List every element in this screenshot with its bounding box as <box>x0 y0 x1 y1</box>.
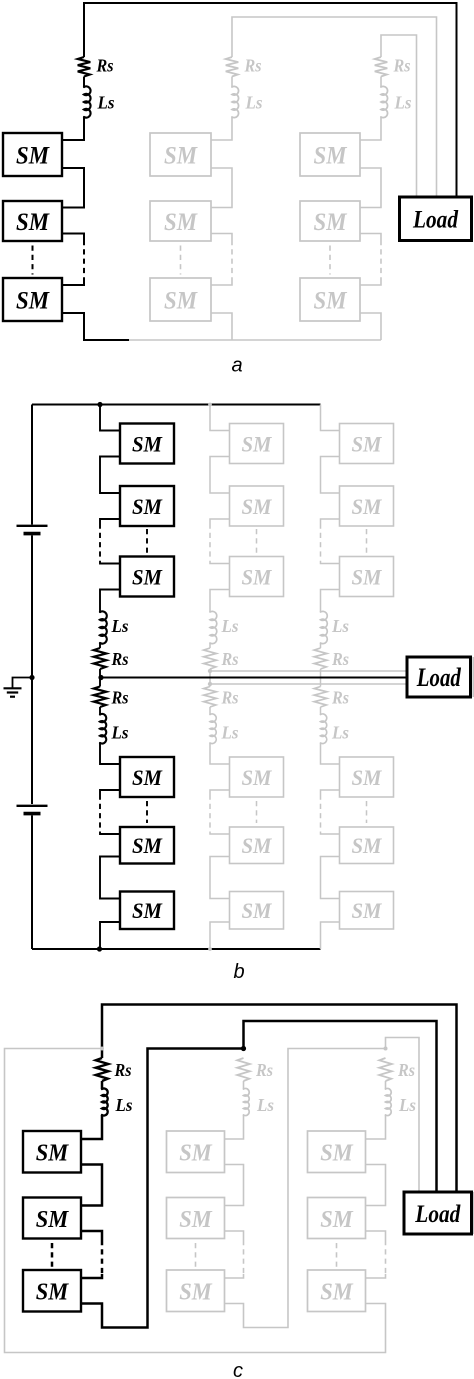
svg-text:SM: SM <box>179 1140 213 1167</box>
submodule SM1 figC branch1 <box>23 1131 81 1173</box>
wire figB arm1 SM5-SM6 <box>100 857 120 899</box>
submodule SM2 figB arm2 upper <box>230 486 284 526</box>
resistor Rs figB arm1 upper <box>94 648 107 669</box>
wire figC branch2 SM3 top pin <box>225 1274 244 1278</box>
node figB arm1 bottom rail junction <box>97 946 102 951</box>
dashed wire figB arm1 SM4-SM5 (left) <box>99 795 101 832</box>
resistor Rs figB arm3 lower <box>314 687 327 708</box>
wire figB arm1 SM3 top pin <box>100 561 120 564</box>
svg-text:SM: SM <box>320 1140 354 1167</box>
wire figC branch1 SM2 bottom pin <box>81 1231 102 1240</box>
wire figB arm2 SM2 bottom pin <box>210 519 230 524</box>
svg-text:SM: SM <box>314 143 348 170</box>
svg-text:Ls: Ls <box>221 616 239 636</box>
battery V2 (lower DC source) <box>17 806 48 814</box>
wire figC branch2 SM2 bottom pin <box>225 1231 244 1240</box>
load block figB <box>407 657 471 697</box>
wire figC branch1 Ls to SM1 pin <box>81 1115 102 1139</box>
load block figA <box>400 197 472 241</box>
wire figA branch2 SM2 bottom pin <box>211 234 232 241</box>
svg-text:Rs: Rs <box>111 649 129 669</box>
dashed wire figA branch2 SM2-SM3 (right) <box>231 240 233 282</box>
svg-text:SM: SM <box>314 209 348 236</box>
wire figA bottom rail (shared, gray) <box>129 339 381 341</box>
node figC branch1 bottom / branch2 top <box>241 1046 246 1051</box>
wire figB DC link middle segment <box>31 535 33 677</box>
submodule SM4 figB arm2 lower <box>230 757 284 797</box>
wire figC branch1 SM3 top pin <box>81 1274 102 1278</box>
wire figC branch2 Ls to SM1 pin <box>225 1115 244 1139</box>
submodule SM6 figB arm1 lower <box>120 892 174 930</box>
node figB arm1 top rail junction <box>97 402 102 407</box>
inductor Ls figA branch2 <box>232 86 239 117</box>
wire figB arm3 SM3 top pin <box>321 561 340 564</box>
wire figB arm3 Rs-Ls lower <box>320 707 322 715</box>
submodule SM2 figB arm1 upper <box>120 486 174 526</box>
svg-text:Rs: Rs <box>96 56 114 76</box>
wire figB arm2 SM6 to bottom rail <box>210 922 230 949</box>
wire figC branch3 Ls to SM1 pin <box>366 1115 386 1139</box>
inductor Ls figB arm2 lower <box>210 714 216 744</box>
wire figB arm2 SM3 top pin <box>210 561 230 564</box>
svg-text:SM: SM <box>242 431 273 456</box>
submodule SM1 figC branch2 <box>167 1131 225 1173</box>
submodule SM2 figC branch2 <box>167 1198 225 1239</box>
node figC branch1 top / branch3 return <box>100 1047 104 1051</box>
wire figC branch3 SM1-SM2 <box>366 1165 386 1206</box>
svg-text:Rs: Rs <box>244 56 262 76</box>
wire figB arm2 midpoint segment <box>209 669 211 687</box>
dashed wire figB arm2 SM4-SM5 (left) <box>209 795 211 832</box>
dashed wire figA branch1 SM2-SM3 (center) <box>32 246 34 275</box>
svg-text:Ls: Ls <box>398 1095 416 1115</box>
inductor Ls figC branch3 <box>386 1088 392 1115</box>
submodule SM3 figB arm2 upper <box>230 557 284 597</box>
resistor Rs figC branch3 <box>379 1058 392 1081</box>
resistor Rs figA branch1 <box>78 57 91 77</box>
wire figB arm3 SM5-SM6 <box>321 857 340 899</box>
submodule SM3 figB arm1 upper <box>120 557 174 597</box>
svg-text:Load: Load <box>412 207 458 234</box>
wire figA branch3 SM3 top pin <box>360 282 381 285</box>
svg-text:SM: SM <box>314 288 348 315</box>
wire figB arm3 SM3 to Ls <box>321 590 340 613</box>
wire figA branch2 Rs-Ls <box>231 77 233 88</box>
svg-text:Ls: Ls <box>115 1095 133 1115</box>
wire figB DC link upper segment <box>31 405 33 525</box>
wire figB ground stub <box>13 678 33 688</box>
wire figB arm3 output to Load <box>210 683 407 685</box>
submodule SM3 figA branch2 <box>150 278 211 321</box>
svg-text:SM: SM <box>242 564 273 589</box>
svg-text:Rs: Rs <box>221 649 239 669</box>
dashed wire figB arm2 SM4-SM5 (center) <box>256 801 258 823</box>
svg-text:SM: SM <box>352 898 383 923</box>
wire figC branch1/2 node to Load <box>244 1021 437 1192</box>
wire figB arm3 SM6 to bottom rail <box>321 922 340 949</box>
resistor Rs figC branch2 <box>237 1058 250 1081</box>
wire figC branch1 SM1-SM2 <box>81 1165 102 1206</box>
submodule SM5 figB arm2 lower <box>230 827 284 864</box>
dashed wire figC branch1 SM2-SM3 (center) <box>51 1243 54 1267</box>
wire figB arm3 SM2 bottom pin <box>321 519 340 524</box>
svg-text:Ls: Ls <box>331 723 349 743</box>
wire figB arm3 Ls-Rs upper <box>320 643 322 648</box>
svg-text:Ls: Ls <box>221 723 239 743</box>
wire figA branch3 SM2 bottom pin <box>360 234 381 241</box>
wire figB arm2 Rs-Ls lower <box>209 707 211 715</box>
submodule SM5 figB arm1 lower <box>120 827 174 864</box>
inductor Ls figB arm1 lower <box>100 714 106 744</box>
inductor Ls figC branch1 <box>102 1088 108 1115</box>
resistor Rs figB arm3 upper <box>314 648 327 669</box>
wire figC branch1 top to Load <box>102 1005 457 1193</box>
load block figC <box>404 1192 472 1234</box>
wire figA branch3 top rail to Load <box>381 35 417 197</box>
wire figB top DC rail <box>32 404 321 406</box>
submodule SM4 figB arm1 lower <box>120 757 174 797</box>
svg-text:b: b <box>233 961 244 983</box>
submodule SM2 figC branch3 <box>308 1198 366 1239</box>
svg-text:SM: SM <box>179 1206 213 1233</box>
load shadow edge figB (gray load outline behind) <box>472 657 474 697</box>
wire figA branch1 SM1-SM2 <box>62 168 84 208</box>
wire figB arm2 SM3 to Ls <box>210 590 230 613</box>
inductor Ls figC branch2 <box>244 1088 250 1115</box>
svg-text:Rs: Rs <box>221 688 239 708</box>
submodule SM1 figC branch3 <box>308 1131 366 1173</box>
svg-text:SM: SM <box>132 833 163 858</box>
wire figB arm1 Ls to SM4 pin <box>100 743 120 764</box>
resistor Rs figC branch1 <box>96 1058 109 1081</box>
dashed wire figB arm3 SM2-SM3 (left) <box>320 524 322 562</box>
svg-text:a: a <box>231 355 242 377</box>
wire figB arm2 Ls to SM4 pin <box>210 743 230 764</box>
submodule SM3 figA branch3 <box>300 278 360 321</box>
svg-text:SM: SM <box>179 1279 213 1306</box>
svg-text:SM: SM <box>242 898 273 923</box>
svg-text:Load: Load <box>416 663 462 692</box>
svg-text:SM: SM <box>16 288 50 315</box>
wire figA branch3 SM3 to bottom rail <box>360 313 381 340</box>
wire figB arm1 SM2 bottom pin <box>100 519 120 524</box>
wire figB arm1 midpoint segment <box>99 669 101 687</box>
resistor Rs figA branch2 <box>226 57 239 77</box>
wire figA branch2 SM3 top pin <box>211 282 232 285</box>
wire figC branch3 Rs-Ls <box>385 1081 387 1089</box>
dashed wire figC branch2 SM2-SM3 (center) <box>195 1243 197 1267</box>
wire figC branch1 bottom riser to branch2 top node <box>102 1049 244 1328</box>
wire figB arm3 midpoint segment <box>320 669 322 687</box>
submodule SM1 figA branch2 <box>150 133 211 176</box>
wire figA branch1 Ls to SM1 pin <box>62 117 84 140</box>
wire figB arm1 output to Load <box>100 677 407 679</box>
dashed wire figC branch1 SM2-SM3 (right) <box>101 1240 104 1274</box>
dashed wire figA branch1 SM2-SM3 (right) <box>83 240 85 282</box>
svg-text:SM: SM <box>164 288 198 315</box>
wire figB arm2 top rail to SM1 pin <box>210 405 230 431</box>
wire figC branch3 SM3 bottom pin <box>366 1304 386 1312</box>
wire figA branch3 Rs-Ls <box>380 77 382 88</box>
dashed wire figC branch2 SM2-SM3 (right) <box>243 1240 245 1274</box>
svg-text:SM: SM <box>132 431 163 456</box>
wire figC branch3 SM3 top pin <box>366 1274 386 1278</box>
svg-text:SM: SM <box>132 494 163 519</box>
wire figB arm1 SM5 top pin <box>100 832 120 835</box>
wire figB arm1 Rs-Ls lower <box>99 707 101 715</box>
wire figA branch2 top rail to Load <box>232 17 437 197</box>
wire figC branch3 top node to Load <box>386 1038 420 1193</box>
svg-text:SM: SM <box>352 494 383 519</box>
inductor Ls figB arm3 upper <box>321 611 328 643</box>
submodule SM2 figA branch3 <box>300 201 360 241</box>
dashed wire figA branch2 SM2-SM3 (center) <box>180 246 182 275</box>
dashed wire figC branch3 SM2-SM3 (center) <box>336 1243 338 1267</box>
resistor Rs figB arm2 lower <box>204 687 217 708</box>
wire figC branch2 SM3 bottom pin <box>225 1304 244 1312</box>
submodule SM1 figB arm2 upper <box>230 424 284 464</box>
dashed wire figB arm3 SM2-SM3 (center) <box>366 529 368 553</box>
resistor Rs figB arm2 upper <box>204 648 217 669</box>
dashed wire figB arm1 SM4-SM5 (center) <box>146 801 148 823</box>
wire figC branch1 Rs-Ls <box>101 1081 104 1089</box>
inductor Ls figB arm2 upper <box>210 611 217 643</box>
svg-text:SM: SM <box>164 209 198 236</box>
dashed wire figB arm3 SM4-SM5 (left) <box>320 795 322 832</box>
wire figB arm1 Ls-Rs upper <box>99 643 101 648</box>
dashed wire figC branch3 SM2-SM3 (right) <box>385 1240 387 1274</box>
node figB arm2 top rail junction <box>208 403 212 407</box>
svg-text:Ls: Ls <box>97 93 115 113</box>
wire figB arm3 SM4 bottom pin <box>321 790 340 795</box>
svg-text:SM: SM <box>352 833 383 858</box>
wire figB arm1 SM4 bottom pin <box>100 790 120 795</box>
wire figA branch3 Ls to SM1 pin <box>360 117 381 140</box>
node figB DC-link midpoint (ground) <box>29 675 34 680</box>
svg-text:Ls: Ls <box>394 93 412 113</box>
wire figB DC link lower segment <box>31 815 33 949</box>
wire figB arm2 SM5-SM6 <box>210 857 230 899</box>
submodule SM4 figB arm3 lower <box>340 757 394 797</box>
resistor Rs figA branch3 <box>375 57 388 77</box>
wire figB arm1 top rail to SM1 pin <box>100 405 120 431</box>
submodule SM3 figA branch1 <box>3 278 62 321</box>
svg-text:SM: SM <box>36 1206 70 1233</box>
svg-text:Load: Load <box>414 1201 460 1228</box>
submodule SM6 figB arm2 lower <box>230 892 284 930</box>
dashed wire figB arm2 SM2-SM3 (center) <box>256 529 258 553</box>
submodule SM2 figC branch1 <box>23 1198 81 1239</box>
resistor Rs figB arm1 lower <box>94 687 107 708</box>
submodule SM2 figA branch2 <box>150 201 211 241</box>
wire figB bottom DC rail <box>32 948 321 950</box>
inductor Ls figB arm1 upper <box>100 611 107 643</box>
dashed wire figB arm1 SM2-SM3 (left) <box>99 524 101 562</box>
svg-text:Rs: Rs <box>393 56 411 76</box>
dashed wire figB arm3 SM4-SM5 (center) <box>366 801 368 823</box>
wire figA branch1 SM3 to bottom rail <box>62 313 129 340</box>
node figC branch2 bottom / branch3 top <box>384 1047 388 1051</box>
submodule SM3 figB arm3 upper <box>340 557 394 597</box>
wire figB arm1 SM6 to bottom rail <box>100 922 120 949</box>
svg-text:SM: SM <box>320 1279 354 1306</box>
svg-text:Ls: Ls <box>111 723 129 743</box>
inductor Ls figB arm3 lower <box>321 714 327 744</box>
wire figA branch1 top rail to Load <box>84 3 457 197</box>
wire figA branch2 SM1-SM2 <box>211 168 232 208</box>
dashed wire figB arm1 SM2-SM3 (center) <box>146 529 148 553</box>
wire figB DC link lower-mid segment <box>31 678 33 805</box>
wire figC branch2 Rs-Ls <box>243 1081 245 1089</box>
svg-text:Rs: Rs <box>397 1060 415 1080</box>
node figB arm2 bottom rail junction <box>208 947 212 951</box>
wire figC branch3 bottom return loop to branch1 node <box>5 1049 386 1353</box>
svg-text:SM: SM <box>352 564 383 589</box>
svg-text:SM: SM <box>132 765 163 790</box>
wire figC branch3 SM2 bottom pin <box>366 1231 386 1240</box>
svg-text:SM: SM <box>242 494 273 519</box>
battery V1 (upper DC source) <box>17 526 48 534</box>
wire figB arm3 top rail to SM1 pin <box>321 405 340 431</box>
svg-text:Ls: Ls <box>111 616 129 636</box>
svg-text:SM: SM <box>132 564 163 589</box>
dashed wire figB arm2 SM2-SM3 (left) <box>209 524 211 562</box>
submodule SM1 figA branch3 <box>300 133 360 176</box>
svg-text:SM: SM <box>36 1140 70 1167</box>
wire figC branch1 SM3 bottom pin <box>81 1304 102 1312</box>
submodule SM2 figB arm3 upper <box>340 486 394 526</box>
node figB arm3 output junction <box>208 682 212 686</box>
svg-text:SM: SM <box>164 143 198 170</box>
wire figB arm3 SM1-SM2 <box>321 457 340 494</box>
svg-text:SM: SM <box>352 765 383 790</box>
submodule SM1 figA branch1 <box>3 133 62 176</box>
wire figB arm2 output to Load <box>210 670 407 672</box>
svg-text:SM: SM <box>132 898 163 923</box>
submodule SM5 figB arm3 lower <box>340 827 394 864</box>
svg-text:SM: SM <box>352 431 383 456</box>
svg-text:SM: SM <box>36 1279 70 1306</box>
ground symbol <box>4 688 22 696</box>
load shadow edge figC (gray load outline behind) <box>472 1192 474 1234</box>
svg-text:c: c <box>233 1360 243 1379</box>
wire figA branch2 Ls to SM1 pin <box>211 117 232 140</box>
wire figB arm3 SM5 top pin <box>321 832 340 835</box>
inductor Ls figA branch1 <box>84 86 91 117</box>
svg-text:SM: SM <box>16 143 50 170</box>
svg-text:Ls: Ls <box>245 93 263 113</box>
svg-text:Ls: Ls <box>256 1095 274 1115</box>
svg-text:Rs: Rs <box>255 1060 273 1080</box>
wire figB arm1 SM3 to Ls <box>100 590 120 613</box>
wire figB arm1 SM1-SM2 <box>100 457 120 494</box>
svg-text:Ls: Ls <box>331 616 349 636</box>
submodule SM1 figB arm3 upper <box>340 424 394 464</box>
wire figA branch3 SM1-SM2 <box>360 168 381 208</box>
wire figA branch1 SM3 top pin <box>62 282 84 285</box>
wire figA branch1 SM2 bottom pin <box>62 234 84 241</box>
submodule SM6 figB arm3 lower <box>340 892 394 930</box>
wire figB arm3 Ls to SM4 pin <box>321 743 340 764</box>
svg-text:Rs: Rs <box>331 688 349 708</box>
wire figC branch2 SM1-SM2 <box>225 1165 244 1206</box>
wire figB arm2 SM4 bottom pin <box>210 790 230 795</box>
wire figB arm2 SM1-SM2 <box>210 457 230 494</box>
submodule SM1 figB arm1 upper <box>120 424 174 464</box>
svg-text:SM: SM <box>320 1206 354 1233</box>
node figB arm2 output junction <box>208 669 212 673</box>
submodule SM3 figC branch2 <box>167 1270 225 1312</box>
inductor Ls figA branch3 <box>381 86 388 117</box>
svg-text:SM: SM <box>242 765 273 790</box>
wire figA branch1 Rs-Ls <box>83 77 85 88</box>
svg-text:Rs: Rs <box>114 1060 132 1080</box>
svg-text:Rs: Rs <box>111 688 129 708</box>
dashed wire figA branch3 SM2-SM3 (center) <box>329 246 331 275</box>
wire figC branch2 bottom to branch3 top node <box>244 1049 386 1328</box>
dashed wire figA branch3 SM2-SM3 (right) <box>380 240 382 282</box>
svg-text:Rs: Rs <box>331 649 349 669</box>
submodule SM2 figA branch1 <box>3 201 62 241</box>
wire figA branch2 SM3 to bottom rail <box>211 313 232 340</box>
submodule SM3 figC branch1 <box>23 1270 81 1312</box>
node figB arm1 midpoint <box>98 675 103 680</box>
svg-text:SM: SM <box>16 209 50 236</box>
submodule SM3 figC branch3 <box>308 1270 366 1312</box>
wire figB arm2 Ls-Rs upper <box>209 643 211 648</box>
svg-text:SM: SM <box>242 833 273 858</box>
wire figB arm2 SM5 top pin <box>210 832 230 835</box>
